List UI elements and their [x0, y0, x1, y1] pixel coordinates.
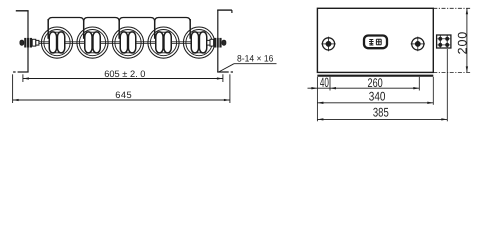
ring element 5: [183, 27, 214, 58]
label 8-14x16 with leader: [219, 53, 276, 71]
enclosure outline: [317, 8, 433, 72]
dimension 260: [330, 76, 419, 91]
ring element 4: [148, 27, 179, 58]
svg-text:645: 645: [115, 90, 132, 100]
svg-text:40: 40: [320, 75, 329, 90]
right mounting bracket: [217, 10, 233, 72]
svg-text:605 ± 2. 0: 605 ± 2. 0: [104, 69, 145, 79]
dimension 40: [308, 75, 331, 121]
ring element 3: [112, 27, 143, 58]
left view: insulator/ring chain assembly: [13, 10, 277, 103]
left end fitting (bolt/washers): [20, 38, 39, 48]
svg-text:260: 260: [367, 76, 382, 90]
left mounting bracket: [13, 11, 29, 73]
svg-text:385: 385: [373, 106, 389, 120]
nameplate: [364, 36, 387, 49]
svg-text:8-14 × 16: 8-14 × 16: [237, 53, 273, 63]
svg-text:200: 200: [455, 31, 469, 55]
right end fitting (bolt/washers, mirrored): [207, 38, 226, 48]
dimension 385: [317, 49, 447, 121]
right view: enclosure box: [308, 8, 471, 121]
terminal block: [437, 35, 451, 48]
ring element 1: [41, 27, 72, 58]
svg-text:340: 340: [369, 90, 386, 104]
right boss M2: [411, 37, 425, 52]
ring element 2: [77, 27, 108, 58]
left boss M1: [321, 37, 335, 52]
dimension 340: [317, 77, 433, 105]
dimension 200 (vertical): [433, 8, 470, 72]
dimension 645: [13, 74, 230, 103]
top jumper bus staples: [48, 18, 190, 39]
dimension 605: [23, 69, 223, 82]
axle rod (double line): [36, 41, 210, 43]
